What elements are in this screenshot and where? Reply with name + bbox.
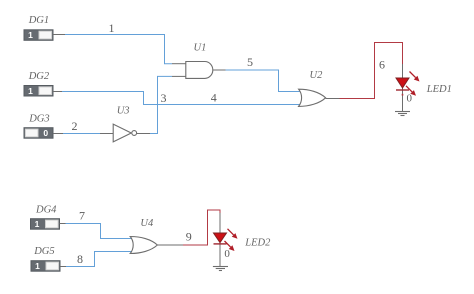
svg-text:LED2: LED2 (244, 237, 271, 248)
svg-text:1: 1 (28, 30, 33, 40)
LED LED1 (396, 64, 420, 112)
svg-text:3: 3 (161, 91, 167, 105)
svg-text:1: 1 (35, 261, 40, 271)
svg-text:DG1: DG1 (28, 15, 49, 26)
wire net 5 : U1 output to U2 pin A (213, 70, 302, 92)
AND gate U1 (186, 62, 213, 79)
wire net 7 : DG4 to U4 pin A (60, 224, 132, 239)
wire net 6 : U2 output to LED1 anode (326, 43, 403, 99)
LED1 arrow 1 (406, 72, 420, 96)
svg-text:9: 9 (186, 229, 192, 243)
wire net 3 : U3 output to U1 pin B (137, 76, 186, 133)
digital constant DG3 (24, 128, 53, 139)
wire net 8 : DG5 to U4 pin B (60, 252, 132, 267)
digital constant DG2 (24, 86, 53, 97)
svg-text:5: 5 (247, 55, 253, 69)
svg-text:0: 0 (407, 93, 413, 105)
OR gate U4 (130, 237, 157, 254)
svg-text:0: 0 (224, 248, 230, 260)
LED LED2 (214, 213, 238, 267)
wire net 4 : DG2 to U2 pin B (53, 92, 302, 105)
svg-text:8: 8 (77, 252, 83, 266)
inverter U3 (113, 124, 136, 142)
svg-text:1: 1 (35, 219, 40, 229)
LED2 arrow 1 (225, 229, 238, 251)
OR gate U2 (299, 89, 326, 106)
svg-text:DG4: DG4 (35, 205, 57, 216)
svg-text:6: 6 (379, 58, 385, 72)
LED2 arrow 2 (225, 241, 231, 247)
svg-text:2: 2 (72, 119, 78, 133)
digital constant DG4 (31, 219, 60, 230)
LED1 arrow 2 (406, 86, 412, 92)
svg-text:DG2: DG2 (28, 71, 50, 82)
wire net 2 : DG3 to U3 input (53, 133, 113, 135)
svg-text:DG5: DG5 (33, 246, 54, 257)
svg-text:7: 7 (79, 209, 85, 223)
svg-text:0: 0 (43, 128, 48, 138)
digital constant DG5 (31, 261, 60, 272)
svg-text:DG3: DG3 (28, 114, 49, 125)
svg-text:U4: U4 (140, 218, 154, 229)
digital constant DG1 (24, 30, 53, 41)
ground (LED1) (395, 112, 410, 116)
svg-text:U3: U3 (117, 106, 130, 117)
svg-text:U1: U1 (194, 43, 207, 54)
svg-text:1: 1 (28, 86, 33, 96)
wire net 9 : U4 output to LED2 anode (157, 210, 220, 245)
ground (LED2) (213, 267, 228, 271)
svg-text:LED1: LED1 (426, 84, 452, 95)
svg-text:U2: U2 (310, 70, 324, 81)
svg-text:1: 1 (109, 21, 115, 35)
svg-text:4: 4 (211, 91, 217, 105)
wire net 1 : DG1 to U1 pin A (53, 35, 186, 64)
